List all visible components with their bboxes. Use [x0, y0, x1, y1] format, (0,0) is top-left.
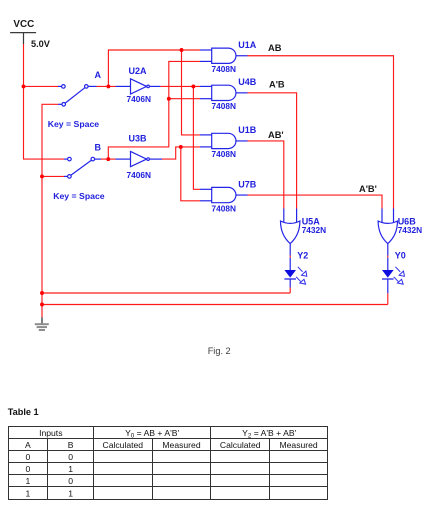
svg-text:7432N: 7432N	[302, 225, 326, 235]
svg-text:7432N: 7432N	[398, 225, 422, 235]
svg-text:U1A: U1A	[238, 40, 257, 50]
svg-text:VCC: VCC	[13, 19, 34, 30]
svg-text:A: A	[95, 70, 102, 80]
svg-text:1: 1	[26, 476, 31, 486]
svg-text:U1B: U1B	[238, 125, 257, 135]
svg-text:7406N: 7406N	[127, 94, 151, 104]
svg-text:Table 1: Table 1	[8, 407, 39, 417]
svg-text:U2A: U2A	[129, 66, 148, 76]
svg-text:Y2: Y2	[297, 251, 308, 261]
svg-text:Inputs: Inputs	[39, 428, 62, 438]
svg-text:Y0 = AB + A'B': Y0 = AB + A'B'	[125, 428, 179, 440]
svg-text:AB: AB	[268, 43, 282, 53]
svg-text:0: 0	[68, 452, 73, 462]
svg-text:A'B': A'B'	[359, 184, 377, 194]
svg-text:Y0: Y0	[395, 251, 406, 261]
svg-text:B: B	[68, 440, 74, 450]
svg-text:Fig. 2: Fig. 2	[208, 346, 231, 356]
svg-text:U3B: U3B	[129, 133, 148, 143]
svg-text:Measured: Measured	[162, 440, 200, 450]
svg-text:1: 1	[26, 488, 31, 498]
svg-text:Key = Space: Key = Space	[53, 191, 105, 201]
svg-text:0: 0	[26, 452, 31, 462]
svg-text:5.0V: 5.0V	[31, 39, 51, 49]
svg-text:1: 1	[68, 464, 73, 474]
svg-text:7406N: 7406N	[127, 170, 151, 180]
svg-text:B: B	[95, 142, 102, 152]
svg-text:7408N: 7408N	[212, 149, 236, 159]
svg-text:Measured: Measured	[279, 440, 317, 450]
svg-text:0: 0	[68, 476, 73, 486]
svg-text:U4B: U4B	[238, 77, 257, 87]
svg-text:A: A	[25, 440, 31, 450]
svg-text:1: 1	[68, 488, 73, 498]
svg-text:Calculated: Calculated	[102, 440, 143, 450]
svg-text:7408N: 7408N	[212, 64, 236, 74]
svg-text:A'B: A'B	[269, 80, 285, 90]
svg-text:7408N: 7408N	[212, 101, 236, 111]
svg-text:Key = Space: Key = Space	[48, 119, 100, 129]
svg-text:0: 0	[26, 464, 31, 474]
svg-text:7408N: 7408N	[212, 203, 236, 213]
svg-text:AB': AB'	[268, 130, 284, 140]
svg-text:Calculated: Calculated	[220, 440, 261, 450]
svg-text:Y2 = A'B + AB': Y2 = A'B + AB'	[242, 428, 296, 440]
svg-text:U7B: U7B	[238, 179, 257, 189]
